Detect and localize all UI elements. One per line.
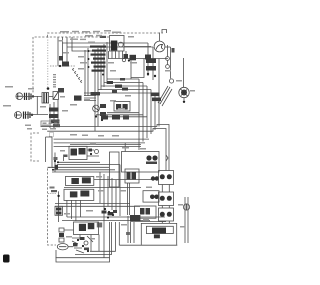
- capacitor stack B1: [25, 93, 32, 100]
- capacitor stack B2: [24, 112, 31, 119]
- wire staircase D: [54, 142, 145, 144]
- wire mid cross 1: [107, 112, 139, 114]
- S2 top marks: [58, 88, 64, 93]
- oven lamp ellipse: [57, 244, 68, 250]
- wire harness diagonal 3: [158, 86, 168, 103]
- vertical label strip: [53, 74, 56, 88]
- wire motor feed: [183, 58, 185, 87]
- infinite switch circles: [151, 176, 155, 180]
- relay box R3: [135, 206, 157, 218]
- fuse pin comb: [109, 51, 127, 59]
- junction dot cluster: [102, 211, 107, 214]
- terminal circle B: [166, 65, 170, 69]
- wire element feeds: [162, 185, 169, 193]
- wire staircase C: [54, 138, 149, 140]
- wire SW3 drops: [66, 200, 68, 217]
- wire cluster drops: [98, 235, 100, 252]
- relay box R2: [143, 191, 159, 202]
- wire right drop from bus: [147, 43, 149, 76]
- wire lower H buses 2: [67, 216, 165, 218]
- cabinet dashed outline bottom-left: [48, 168, 59, 246]
- clock box: [122, 152, 160, 173]
- probe cluster: [84, 241, 88, 245]
- bottom right inner box: [146, 226, 173, 233]
- fan motor B2: [15, 112, 22, 119]
- crossover junction blobs: [107, 81, 113, 84]
- text smudges: [3, 30, 195, 240]
- terminal strip vertical 1: [84, 50, 86, 96]
- element box E1: [159, 171, 174, 185]
- oven light filament: [156, 44, 163, 49]
- wire between fans: [36, 96, 38, 114]
- component blob TB1b: [130, 55, 137, 61]
- oven control box top: [74, 222, 99, 235]
- wire top bus L1: [63, 37, 149, 64]
- relay K1: [42, 93, 49, 103]
- bus left terminal blob: [55, 165, 59, 170]
- element box E2: [159, 192, 174, 206]
- fuse element dark: [111, 41, 118, 51]
- lock motor M1: [179, 87, 189, 97]
- bottom return wires: [56, 222, 110, 258]
- wire box SW1 top feed: [70, 144, 141, 146]
- bus lines left-mid: [57, 161, 100, 163]
- wire staircase E: [54, 145, 141, 147]
- wire TB loop: [131, 59, 144, 78]
- junction cluster blob: [62, 62, 69, 67]
- fuse box F1: [110, 36, 125, 52]
- connector strip verticals: [45, 137, 47, 162]
- junction dot: [31, 114, 33, 116]
- cabinet dashed bracket mid-left: [31, 133, 39, 161]
- wire top bus L2: [67, 37, 153, 66]
- mid component blob: [74, 96, 82, 101]
- motor shading: [181, 90, 187, 96]
- wire staircase A: [41, 126, 158, 128]
- wire crossover H5: [95, 92, 155, 94]
- oven light G1: [154, 41, 165, 52]
- element box E3: [159, 208, 174, 221]
- wire B1 to relay: [23, 95, 42, 97]
- wire clock feed: [124, 143, 126, 152]
- clock internals: [146, 155, 151, 160]
- small box under: [154, 234, 160, 238]
- connector hook 3: [77, 75, 79, 77]
- cabinet dotted drop: [47, 37, 49, 87]
- switch cluster lower blobs: [91, 92, 101, 95]
- bottom dark junction cluster: [130, 215, 140, 221]
- lamp stub wires: [64, 230, 74, 247]
- wire drops to bottom box: [127, 216, 129, 243]
- box under clock: [125, 169, 139, 183]
- wire right column drop C: [170, 47, 172, 79]
- dashed neutral tie: [50, 65, 75, 67]
- fuse terminal circle: [118, 42, 123, 47]
- wire harness diagonal 2: [162, 89, 172, 106]
- bundle verticals to bottom: [99, 172, 101, 203]
- wire staircase right corner B: [153, 129, 166, 171]
- component blob TB2: [145, 55, 151, 60]
- left component stack: [59, 228, 64, 232]
- component blob TB1: [124, 54, 129, 59]
- wire mid H: [64, 187, 141, 189]
- bottom right outer box: [141, 223, 176, 245]
- wire crossover H2: [104, 82, 143, 84]
- selector circle: [93, 105, 100, 112]
- wire bottom right H: [130, 221, 166, 223]
- mid mottled junction band: [101, 116, 108, 120]
- wire right column drop A: [167, 45, 169, 57]
- connector hook 1: [73, 69, 75, 71]
- wire left riser: [54, 153, 56, 173]
- wire left drop: [58, 191, 60, 222]
- left label cluster: [50, 187, 55, 189]
- label cluster: [54, 157, 58, 160]
- terminal circle A: [166, 57, 170, 61]
- wire SW2 out right: [94, 179, 157, 181]
- left mid column verticals: [49, 104, 51, 128]
- narrow box left of clock: [110, 152, 120, 187]
- terminal label mark: [172, 48, 175, 53]
- wire staircase B: [47, 130, 153, 132]
- surface switch box SW1: [69, 146, 87, 159]
- top switch cluster S1 verticals: [94, 51, 96, 132]
- wire motor bottom: [183, 98, 185, 101]
- cabinet dashed outline top-left: [33, 33, 163, 93]
- terminal comb wires: [84, 93, 96, 101]
- junction dot: [32, 95, 34, 97]
- contact dots: [88, 50, 90, 52]
- scan artifact blob bottom-left: [3, 255, 10, 263]
- wire lower top bus: [108, 58, 168, 60]
- switch cluster S1 contacts ladder: [90, 46, 106, 48]
- door lock column: [184, 197, 186, 243]
- fan motor B1: [16, 93, 23, 100]
- wire lamp to top bus: [159, 33, 161, 42]
- wire fuse to bundle: [124, 46, 151, 48]
- small squiggle right: [166, 155, 168, 161]
- wire crossover H4: [98, 89, 151, 91]
- left mid column blobs: [49, 108, 59, 112]
- wire crossover H3: [101, 85, 147, 87]
- marks right of box: [97, 223, 102, 228]
- connector hook 5: [81, 81, 83, 83]
- component S2: [53, 92, 59, 100]
- pin circle: [122, 58, 125, 61]
- terminal strip vertical 2: [87, 48, 89, 96]
- wire terminal drop TB: [57, 37, 59, 66]
- wire lamp tie: [165, 46, 171, 48]
- wire right drop 2: [152, 47, 154, 80]
- wire right column drop B: [167, 61, 169, 65]
- surface switch box SW2: [65, 177, 93, 186]
- terminal bracket top right: [162, 30, 167, 34]
- bundle lower blobs: [151, 93, 160, 97]
- wire lower H buses: [55, 202, 130, 204]
- switch SW1 aux contacts: [95, 150, 99, 154]
- connector hook 4: [79, 78, 81, 80]
- wire top bus L3: [72, 37, 92, 51]
- small dashed junction box: [50, 133, 54, 137]
- wire column pair: [128, 183, 130, 215]
- wire B2 out: [25, 114, 49, 116]
- wire mid cross 3: [107, 116, 147, 118]
- connector hook 2: [75, 72, 77, 74]
- mid relay box: [114, 102, 130, 112]
- motor terminal dot: [183, 101, 185, 103]
- wire staircase right corner A: [157, 125, 169, 171]
- terminal circle C: [169, 79, 173, 83]
- wire relay to S2: [49, 95, 53, 97]
- wire crossover H1: [107, 78, 139, 80]
- surface switch box SW3: [64, 189, 94, 200]
- right wire bundle verticals: [138, 79, 140, 150]
- small marks left of box: [126, 232, 130, 235]
- bundle component blobs: [146, 59, 156, 64]
- wire TB drop: [130, 60, 132, 79]
- label box P1: [41, 121, 59, 126]
- wire mid cross 2: [96, 114, 143, 116]
- wire harness diagonal 1: [160, 87, 170, 104]
- thermostat TH1: [55, 206, 63, 215]
- door lock component: [183, 204, 189, 210]
